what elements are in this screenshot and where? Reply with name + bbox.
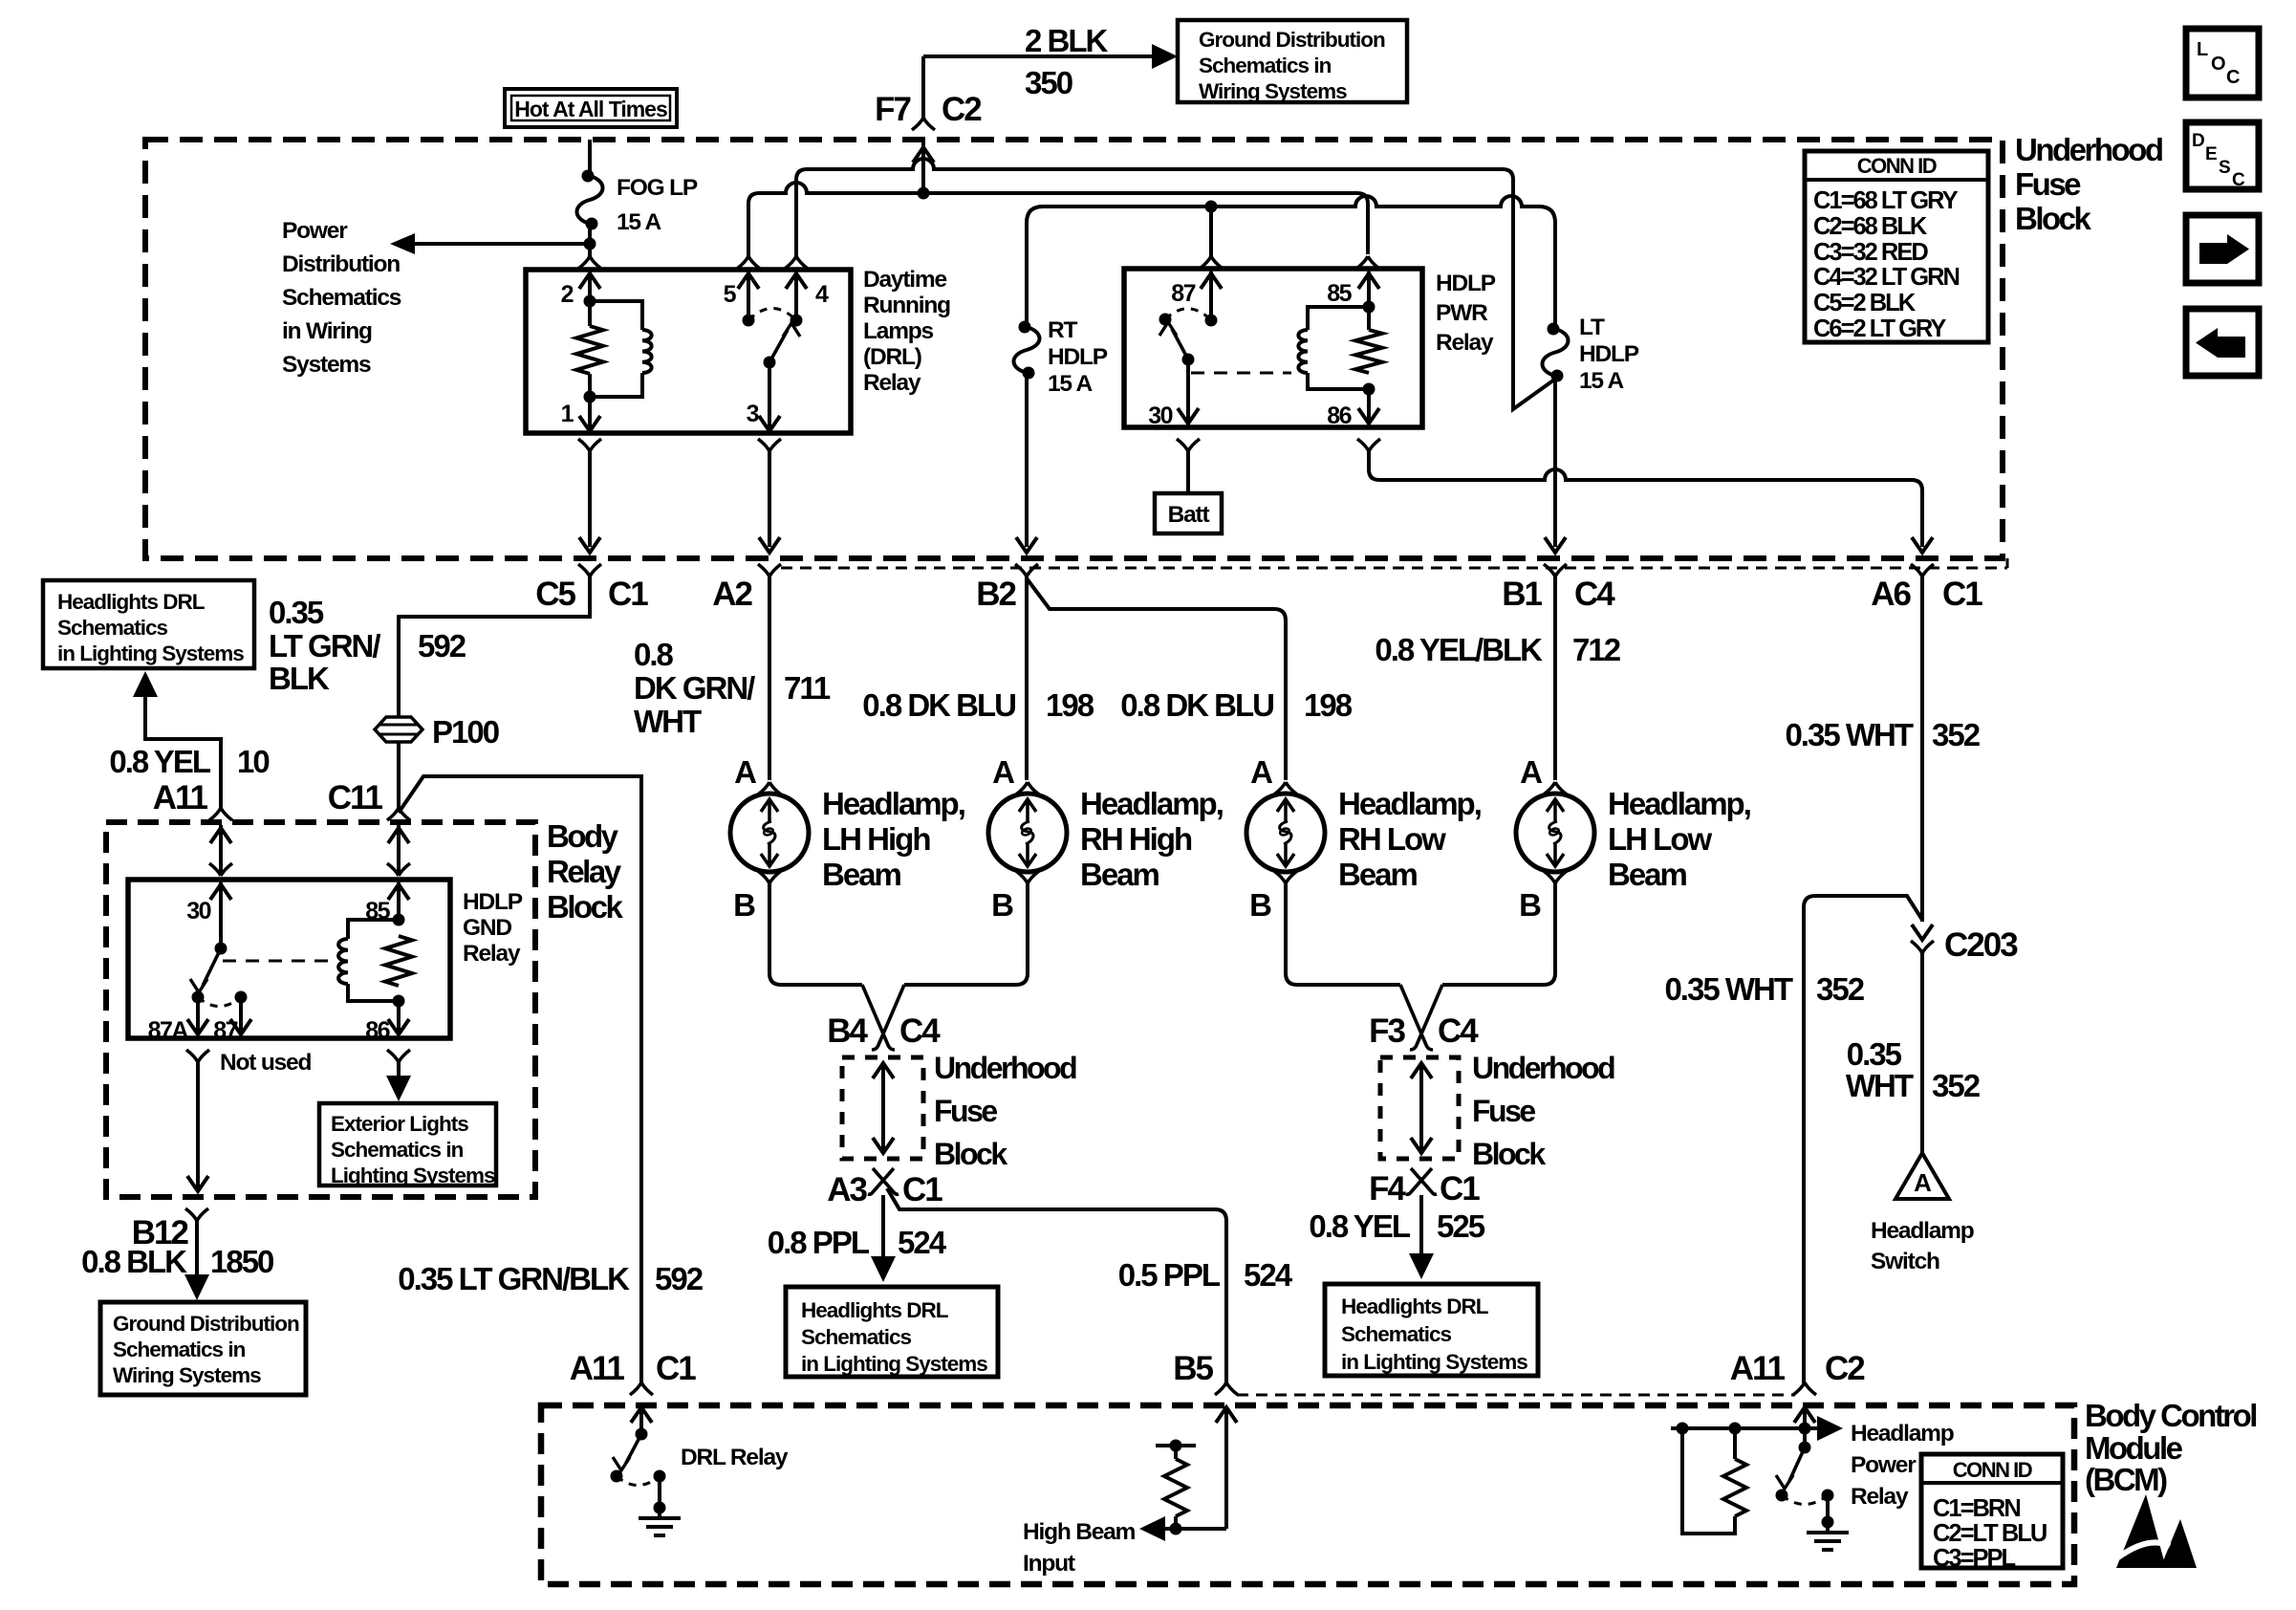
svg-text:Headlamp: Headlamp xyxy=(1871,1218,1974,1244)
HDLP PWR relay switch arm xyxy=(1159,314,1195,366)
label HDLP GND Relay xyxy=(463,889,523,967)
svg-text:Relay: Relay xyxy=(1851,1484,1909,1510)
svg-text:86: 86 xyxy=(1327,402,1351,429)
svg-text:C1: C1 xyxy=(1942,576,1982,613)
svg-text:4: 4 xyxy=(815,281,829,308)
wire DRL pin 1 to C5 xyxy=(579,451,600,553)
DRL relay pin 3 lead xyxy=(759,362,780,431)
fuse element F3-F4 in Underhood Fuse Block (dashed) xyxy=(1380,1057,1459,1159)
lamp Headlamp, RH High Beam xyxy=(988,786,1223,892)
label FOG LP 15 A xyxy=(617,175,698,235)
svg-text:Beam: Beam xyxy=(1338,857,1418,892)
svg-text:524: 524 xyxy=(1244,1257,1293,1293)
Underhood Fuse Block connector face dashed line xyxy=(781,558,2007,568)
svg-text:Beam: Beam xyxy=(1080,857,1159,892)
svg-text:C3=32 RED: C3=32 RED xyxy=(1813,239,1928,266)
svg-text:Switch: Switch xyxy=(1871,1249,1939,1274)
svg-text:C1: C1 xyxy=(608,576,648,613)
Body Relay Block dashed border xyxy=(106,822,535,1197)
svg-text:Headlamp,: Headlamp, xyxy=(1608,786,1750,821)
lamp Headlamp, LH High Beam xyxy=(730,786,964,892)
schematic box Ground Distribution Schematics in Wiring Systems (bottom left) xyxy=(100,1302,306,1395)
svg-text:C2: C2 xyxy=(1825,1350,1865,1387)
svg-text:C5=2 BLK: C5=2 BLK xyxy=(1813,290,1917,316)
svg-text:0.35 LT GRN/BLK: 0.35 LT GRN/BLK xyxy=(398,1261,630,1296)
svg-text:Power: Power xyxy=(1851,1452,1917,1478)
svg-text:B: B xyxy=(991,887,1013,923)
wire 87A to B12 xyxy=(187,1062,208,1191)
wire A6 to C203 xyxy=(1920,577,1924,922)
wire LT fuse down to B1 xyxy=(1545,376,1566,553)
svg-text:WHT: WHT xyxy=(634,704,702,739)
svg-text:C4: C4 xyxy=(899,1012,941,1050)
svg-text:C203: C203 xyxy=(1944,926,2018,964)
arrow up into Headlights DRL box xyxy=(133,671,158,697)
svg-text:Not used: Not used xyxy=(220,1050,311,1076)
svg-text:0.8 YEL: 0.8 YEL xyxy=(109,744,210,779)
arrow up below F7 xyxy=(913,147,934,163)
svg-text:Block: Block xyxy=(934,1137,1007,1171)
svg-text:712: 712 xyxy=(1572,632,1621,667)
lamp Headlamp, LH Low Beam xyxy=(1516,786,1750,892)
HDLP GND relay coil dashed link xyxy=(223,960,329,963)
svg-text:PWR: PWR xyxy=(1436,300,1488,326)
svg-text:15 A: 15 A xyxy=(1048,371,1094,397)
connector A of LH Low Beam lamp xyxy=(1520,754,1567,794)
svg-text:(DRL): (DRL) xyxy=(863,344,921,370)
connector B2 xyxy=(976,564,1038,613)
svg-text:in Lighting Systems: in Lighting Systems xyxy=(1341,1350,1527,1374)
svg-text:High Beam: High Beam xyxy=(1023,1519,1136,1545)
svg-text:0.8 DK BLU: 0.8 DK BLU xyxy=(862,687,1015,723)
svg-text:C: C xyxy=(2226,67,2240,88)
svg-text:10: 10 xyxy=(237,744,269,779)
relay box HDLP GND Relay xyxy=(128,880,450,1038)
svg-text:HDLP: HDLP xyxy=(1579,341,1639,367)
HDLP PWR relay pin 30 lead xyxy=(1178,359,1199,425)
svg-text:Input: Input xyxy=(1023,1551,1075,1577)
svg-text:0.35: 0.35 xyxy=(269,595,324,630)
HDLP PWR relay coil xyxy=(1298,307,1369,389)
wire DRL pin 3 to A2 xyxy=(759,451,780,553)
wire B1 to LH Low Beam lamp xyxy=(1553,577,1557,780)
svg-text:B1: B1 xyxy=(1502,576,1542,613)
DRL relay switch arm xyxy=(764,323,801,369)
ESD warning symbol xyxy=(2116,1494,2197,1568)
svg-text:B: B xyxy=(1519,887,1541,923)
connector below pin 30 to Batt xyxy=(1177,439,1200,493)
svg-text:Schematics: Schematics xyxy=(1341,1322,1452,1346)
BCM headlamp power relay coil loop xyxy=(1682,1428,1735,1534)
svg-text:Systems: Systems xyxy=(282,352,371,378)
svg-text:85: 85 xyxy=(365,898,390,925)
wire BCM A11 C2 up to C203 xyxy=(1804,896,1922,1383)
svg-text:Running: Running xyxy=(863,293,950,318)
svg-text:Fuse: Fuse xyxy=(1472,1094,1535,1128)
schematic box Ground Distribution Schematics in Wiring Systems (top) xyxy=(1178,20,1407,103)
wires into body relay block (A11, C11) xyxy=(209,825,410,876)
wire RH Low Beam B to junction xyxy=(1286,883,1400,985)
HDLP GND relay switch arm xyxy=(190,948,221,992)
svg-text:Headlights DRL: Headlights DRL xyxy=(1341,1295,1489,1318)
connector above DRL relay pin 2 xyxy=(578,256,601,269)
svg-text:B: B xyxy=(733,887,755,923)
connector A11 C2 (BCM) xyxy=(1730,1350,1866,1395)
svg-text:Beam: Beam xyxy=(822,857,901,892)
label Underhood Fuse Block (low beam fuse) xyxy=(1472,1051,1614,1171)
label Power Distribution Schematics in Wiring Systems xyxy=(282,218,401,378)
svg-text:LH Low: LH Low xyxy=(1608,821,1712,857)
schematic box Headlights DRL Schematics in Lighting Systems (left) xyxy=(43,580,254,668)
fuse LT HDLP 15 A xyxy=(1543,329,1569,376)
DRL relay pin 1 lead xyxy=(579,397,600,431)
wire F4 down to Headlights DRL schematics xyxy=(1409,1195,1434,1279)
svg-text:O: O xyxy=(2211,54,2225,75)
svg-text:A11: A11 xyxy=(570,1350,625,1387)
svg-text:C1: C1 xyxy=(1440,1170,1480,1207)
svg-text:Relay: Relay xyxy=(1436,330,1494,356)
svg-text:Schematics: Schematics xyxy=(801,1325,912,1349)
HDLP GND relay coil resistor xyxy=(385,914,412,1008)
connectors above DRL relay pins 5 and 4 xyxy=(737,256,808,269)
svg-text:Body Control: Body Control xyxy=(2085,1398,2256,1433)
connector above HDLP PWR relay pin 87 xyxy=(1200,201,1223,270)
label 0.35 LT GRN/ BLK xyxy=(269,595,380,696)
arrow down at A6 xyxy=(1912,537,1933,553)
svg-text:in Wiring: in Wiring xyxy=(282,318,372,344)
svg-text:15 A: 15 A xyxy=(1579,368,1625,394)
svg-text:RT: RT xyxy=(1048,317,1077,343)
wire F7 C2 battery feed vertical xyxy=(921,56,925,193)
wire A3 down to Headlights DRL schematics xyxy=(871,1195,896,1282)
headlamp switch terminal A triangle xyxy=(1895,1153,1949,1199)
svg-text:A2: A2 xyxy=(712,576,752,613)
wire 2 BLK 350 horizontal to Ground Distribution xyxy=(923,54,1160,58)
svg-text:Headlamp,: Headlamp, xyxy=(1080,786,1223,821)
BCM DRL relay ground xyxy=(639,1476,681,1535)
svg-text:352: 352 xyxy=(1816,971,1865,1007)
svg-text:DRL Relay: DRL Relay xyxy=(681,1445,789,1470)
svg-text:FOG LP: FOG LP xyxy=(617,175,698,201)
wire fuse to DRL relay pin 2 xyxy=(584,224,596,256)
connector B1 C4 xyxy=(1502,564,1615,613)
connector B of LH High Beam lamp xyxy=(733,871,781,923)
svg-text:350: 350 xyxy=(1025,65,1072,100)
fuse FOG LP 15 A xyxy=(577,176,603,224)
svg-text:LT: LT xyxy=(1579,315,1605,340)
svg-text:Ground Distribution: Ground Distribution xyxy=(1199,28,1385,52)
label HDLP PWR Relay xyxy=(1436,271,1496,356)
svg-text:Underhood: Underhood xyxy=(934,1051,1076,1085)
nav icon next-page arrow xyxy=(2186,215,2259,283)
schematic box Headlights DRL Schematics in Lighting Systems (center) xyxy=(786,1287,998,1377)
svg-text:592: 592 xyxy=(418,628,466,664)
nav icon previous-page arrow xyxy=(2186,309,2259,376)
connector A3 C1 xyxy=(827,1168,942,1208)
svg-text:C: C xyxy=(2232,170,2245,190)
wire RT fuse down to B2 xyxy=(1016,373,1037,553)
svg-text:(BCM): (BCM) xyxy=(2085,1462,2167,1497)
svg-text:B4: B4 xyxy=(827,1012,868,1050)
svg-text:C1: C1 xyxy=(656,1350,696,1387)
nav icon LOC button xyxy=(2186,29,2259,98)
svg-text:Fuse: Fuse xyxy=(2015,166,2081,202)
svg-text:Relay: Relay xyxy=(863,370,921,396)
svg-text:Schematics in: Schematics in xyxy=(1199,54,1332,77)
svg-text:HDLP: HDLP xyxy=(463,889,523,915)
HDLP GND relay pin 86 lead xyxy=(388,1001,409,1034)
HDLP GND relay pin 85 lead xyxy=(388,882,409,920)
svg-text:F3: F3 xyxy=(1369,1012,1405,1050)
svg-text:352: 352 xyxy=(1932,1068,1981,1103)
svg-text:RH High: RH High xyxy=(1080,821,1192,857)
HDLP PWR relay coil resistor xyxy=(1355,301,1382,396)
svg-text:15 A: 15 A xyxy=(617,209,662,235)
nav icon DESC button xyxy=(2186,122,2259,190)
svg-text:LH High: LH High xyxy=(822,821,930,857)
svg-text:86: 86 xyxy=(365,1017,389,1044)
svg-text:S: S xyxy=(2219,158,2230,178)
svg-text:A11: A11 xyxy=(1730,1350,1786,1387)
svg-text:0.5 PPL: 0.5 PPL xyxy=(1118,1257,1221,1293)
HDLP PWR relay pin 87 lead xyxy=(1201,272,1222,327)
DRL relay pin 2 lead xyxy=(579,272,600,308)
BCM DRL relay switch xyxy=(611,1428,666,1486)
svg-text:Headlights DRL: Headlights DRL xyxy=(57,590,206,614)
label Body Control Module (BCM) xyxy=(2085,1398,2256,1497)
connector B of RH Low Beam lamp xyxy=(1249,871,1297,923)
svg-text:L: L xyxy=(2197,39,2208,60)
HDLP GND relay contacts and dashed arc xyxy=(192,991,248,1007)
HDLP GND relay coil xyxy=(338,920,399,1001)
label Headlamp Power Relay xyxy=(1851,1421,1954,1510)
svg-text:A: A xyxy=(734,754,756,790)
svg-text:C2: C2 xyxy=(942,91,982,128)
svg-text:CONN ID: CONN ID xyxy=(1857,154,1937,178)
wire B2 to RH High Beam lamp xyxy=(1025,577,1029,780)
BCM high beam input resistor xyxy=(1156,1440,1196,1530)
wire C11 branch to BCM A11 xyxy=(399,776,641,1383)
BCM high beam input wire xyxy=(1139,1407,1237,1541)
svg-text:WHT: WHT xyxy=(1846,1068,1914,1103)
svg-text:C4: C4 xyxy=(1438,1012,1479,1050)
svg-text:C1: C1 xyxy=(902,1171,942,1208)
svg-text:Hot At All Times: Hot At All Times xyxy=(514,97,667,121)
svg-text:Headlamp,: Headlamp, xyxy=(822,786,964,821)
connector A of RH Low Beam lamp xyxy=(1250,754,1297,794)
svg-text:Module: Module xyxy=(2085,1430,2183,1466)
svg-text:A6: A6 xyxy=(1871,576,1911,613)
schematic box Headlights DRL Schematics in Lighting Systems (right) xyxy=(1325,1284,1538,1376)
CONN ID table (Underhood Fuse Block) xyxy=(1805,151,1988,342)
svg-text:Schematics in: Schematics in xyxy=(331,1138,464,1162)
svg-text:A3: A3 xyxy=(827,1171,867,1208)
connector B12 xyxy=(132,1208,208,1251)
arrow into Exterior Lights box xyxy=(386,1062,411,1101)
svg-text:in Lighting Systems: in Lighting Systems xyxy=(57,642,244,665)
svg-text:87: 87 xyxy=(1171,280,1195,307)
svg-text:C3=PPL: C3=PPL xyxy=(1933,1545,2016,1572)
DRL relay coil xyxy=(590,301,652,397)
wire B2 branch to RH Low Beam lamp xyxy=(1027,578,1286,780)
svg-text:F7: F7 xyxy=(875,91,910,128)
svg-text:B5: B5 xyxy=(1173,1350,1213,1387)
Body Control Module connector face dashed line xyxy=(1237,1394,1795,1397)
svg-text:198: 198 xyxy=(1304,687,1353,723)
svg-text:0.8: 0.8 xyxy=(634,637,674,672)
wire merge into F3 xyxy=(1400,985,1442,1050)
Batt terminal box xyxy=(1155,493,1222,533)
label Body Relay Block xyxy=(547,818,624,925)
HDLP PWR relay coil dashed link xyxy=(1191,372,1291,375)
connector below pin 86 xyxy=(1357,439,1380,451)
schematic box Exterior Lights Schematics in Lighting Systems xyxy=(319,1103,496,1187)
DRL relay contact dashed arc xyxy=(748,309,796,321)
label box Hot At All Times xyxy=(505,89,677,127)
svg-text:RH Low: RH Low xyxy=(1338,821,1446,857)
svg-text:524: 524 xyxy=(898,1225,947,1260)
svg-text:F4: F4 xyxy=(1369,1170,1406,1207)
connectors below DRL relay pins 1 and 3 xyxy=(578,439,781,451)
svg-text:Relay: Relay xyxy=(547,854,622,889)
wire A3 branch to B5 (0.5 PPL) xyxy=(887,1188,1226,1383)
connector A6 C1 xyxy=(1871,564,1982,613)
svg-text:HDLP: HDLP xyxy=(1048,344,1108,370)
svg-text:C2=LT BLU: C2=LT BLU xyxy=(1933,1520,2047,1547)
BCM headlamp power relay feed xyxy=(1671,1407,1843,1447)
junction dot F7 on bus xyxy=(918,187,930,200)
wire bus line DRL pin4 to LT HDLP fuse (with hops) xyxy=(796,159,1557,409)
svg-text:Underhood: Underhood xyxy=(2015,132,2162,167)
svg-text:B: B xyxy=(1249,887,1271,923)
svg-text:2 BLK: 2 BLK xyxy=(1025,23,1109,58)
CONN ID table (BCM) xyxy=(1921,1454,2063,1572)
svg-text:5: 5 xyxy=(724,281,737,308)
wire pin 86 to A6 (with hop over B1 wire) xyxy=(1369,451,1922,547)
svg-text:87: 87 xyxy=(213,1017,237,1044)
svg-text:A11: A11 xyxy=(153,779,208,816)
label Headlamp Switch xyxy=(1871,1218,1974,1274)
svg-text:711: 711 xyxy=(784,670,831,706)
Underhood Fuse Block dashed border xyxy=(145,140,2003,558)
svg-text:DK GRN/: DK GRN/ xyxy=(634,670,755,706)
DRL relay pin 4 lead xyxy=(786,272,807,327)
svg-text:Block: Block xyxy=(2015,201,2092,236)
label Daytime Running Lamps (DRL) Relay xyxy=(863,267,950,396)
svg-text:C6=2 LT GRY: C6=2 LT GRY xyxy=(1813,315,1946,342)
relay box HDLP PWR Relay xyxy=(1124,269,1422,427)
lamp Headlamp, RH Low Beam xyxy=(1246,786,1481,892)
svg-text:Power: Power xyxy=(282,218,348,244)
label Underhood Fuse Block xyxy=(2015,132,2162,236)
svg-text:D: D xyxy=(2192,131,2204,151)
svg-text:525: 525 xyxy=(1437,1208,1485,1244)
svg-text:0.35 WHT: 0.35 WHT xyxy=(1785,717,1913,752)
wire A2 to LH High Beam lamp xyxy=(768,577,771,780)
svg-text:P100: P100 xyxy=(432,714,499,750)
svg-text:C4: C4 xyxy=(1574,576,1615,613)
BCM headlamp power relay resistor xyxy=(1723,1428,1746,1516)
svg-text:2: 2 xyxy=(561,281,574,308)
svg-text:0.35: 0.35 xyxy=(1847,1036,1902,1072)
svg-text:CONN ID: CONN ID xyxy=(1953,1458,2032,1482)
connector B5 (BCM) xyxy=(1173,1350,1238,1395)
connector B of RH High Beam lamp xyxy=(991,871,1039,923)
svg-text:0.8 PPL: 0.8 PPL xyxy=(768,1225,870,1260)
BCM headlamp power relay ground xyxy=(1807,1495,1849,1550)
wire C203 to headlamp switch xyxy=(1920,953,1924,1157)
svg-text:Batt: Batt xyxy=(1168,502,1210,528)
svg-text:Schematics: Schematics xyxy=(282,285,401,311)
connector C5 C1 xyxy=(535,564,648,613)
svg-text:87A: 87A xyxy=(148,1017,189,1044)
svg-text:Block: Block xyxy=(1472,1137,1546,1171)
svg-text:C5: C5 xyxy=(535,576,575,613)
svg-text:A: A xyxy=(1914,1168,1932,1197)
connector B of LH Low Beam lamp xyxy=(1519,871,1567,923)
wire C5 to P100 to C11 xyxy=(399,577,590,809)
wire LH Low Beam B to junction xyxy=(1442,883,1555,985)
svg-text:Headlamp: Headlamp xyxy=(1851,1421,1954,1447)
svg-text:Underhood: Underhood xyxy=(1472,1051,1614,1085)
svg-text:B2: B2 xyxy=(976,576,1016,613)
svg-text:A: A xyxy=(1520,754,1542,790)
fuse element B4-A3 in Underhood Fuse Block (dashed) xyxy=(842,1057,923,1159)
svg-text:Ground Distribution: Ground Distribution xyxy=(113,1312,299,1336)
svg-text:Relay: Relay xyxy=(463,941,521,967)
HDLP PWR relay contact dashed arc xyxy=(1165,309,1211,320)
wire RH High Beam B to junction xyxy=(904,883,1028,985)
svg-text:Lamps: Lamps xyxy=(863,318,934,344)
label 0.8 DK GRN/ WHT xyxy=(634,637,755,739)
svg-text:Wiring Systems: Wiring Systems xyxy=(1199,79,1347,103)
connector A of LH High Beam lamp xyxy=(734,754,781,794)
svg-text:0.8 YEL: 0.8 YEL xyxy=(1309,1208,1410,1244)
connector below pin 86 xyxy=(387,1050,410,1062)
label Underhood Fuse Block (high beam fuse) xyxy=(934,1051,1076,1171)
wire LH High Beam B to junction xyxy=(769,883,862,985)
connector A11 body relay block xyxy=(209,808,232,820)
svg-text:GND: GND xyxy=(463,915,511,941)
BCM headlamp power relay switch xyxy=(1776,1442,1834,1505)
svg-text:A: A xyxy=(1250,754,1272,790)
svg-text:Schematics in: Schematics in xyxy=(113,1338,246,1361)
svg-text:0.8 DK BLU: 0.8 DK BLU xyxy=(1120,687,1273,723)
svg-text:30: 30 xyxy=(1148,402,1172,429)
label RT HDLP 15 A xyxy=(1048,317,1108,397)
arrow into Ground Distribution box xyxy=(1152,44,1178,69)
svg-text:0.8 BLK: 0.8 BLK xyxy=(81,1244,187,1279)
svg-text:Fuse: Fuse xyxy=(934,1094,997,1128)
wire merge into B4 xyxy=(862,985,904,1050)
label LT HDLP 15 A xyxy=(1579,315,1639,394)
HDLP GND relay pin 30 lead xyxy=(210,882,231,955)
svg-text:Schematics: Schematics xyxy=(57,616,168,640)
connector A of RH High Beam lamp xyxy=(992,754,1039,794)
svg-text:LT GRN/: LT GRN/ xyxy=(269,628,380,664)
wire hot feed to FOG LP fuse xyxy=(588,140,592,176)
svg-text:C1=68 LT GRY: C1=68 LT GRY xyxy=(1813,187,1959,214)
svg-text:Daytime: Daytime xyxy=(863,267,946,293)
HDLP PWR relay pin 85 lead xyxy=(1356,256,1379,330)
svg-text:HDLP: HDLP xyxy=(1436,271,1496,296)
connector F4 C1 xyxy=(1369,1168,1480,1207)
wire B12 to Ground Distribution xyxy=(184,1221,209,1300)
svg-text:A: A xyxy=(992,754,1014,790)
HDLP PWR relay pin 86 lead xyxy=(1358,389,1379,425)
svg-text:0.8 YEL/BLK: 0.8 YEL/BLK xyxy=(1375,632,1543,667)
relay box Daytime Running Lamps (DRL) Relay xyxy=(526,270,851,433)
